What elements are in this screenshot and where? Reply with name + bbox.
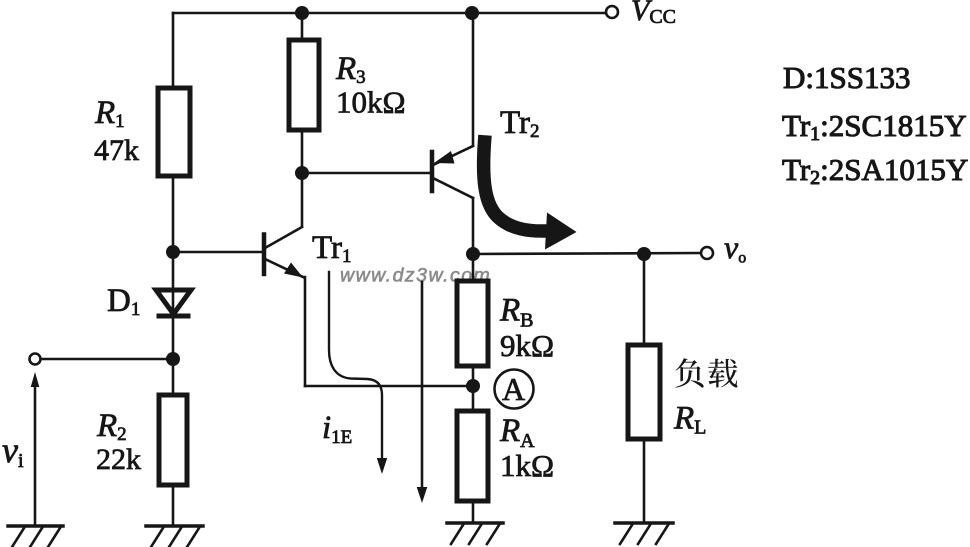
wire Tr2 emitter to Vcc [472,13,475,145]
node input/D1/R2 [166,352,180,366]
current arrow i1E [329,272,387,474]
wire RA bottom [472,501,475,523]
resistor R3 [289,40,319,130]
wire R2 top [172,359,175,395]
vi arrow [31,372,40,526]
resistor RA [457,411,488,501]
wire R3 bottom [301,130,304,173]
current arrow RA branch [417,282,428,503]
svg-text:RA: RA [499,413,535,452]
svg-text:A: A [502,371,525,407]
resistor RB [457,281,488,366]
transistor Q Tr1 [264,173,303,278]
svg-text:Tr2:2SA1015Y: Tr2:2SA1015Y [782,152,968,189]
wire Tr2 base [302,172,430,175]
node R3/Tr1 collector/Tr2 base [295,166,309,180]
svg-text:R1: R1 [94,95,125,132]
svg-text:D1: D1 [107,283,140,320]
wire Tr1 base [173,251,262,254]
label load (Chinese) [675,358,703,388]
svg-text:22k: 22k [96,443,141,476]
ground R2 [146,526,203,547]
node top R3 [295,6,309,20]
input terminal vi [30,354,41,365]
wire Tr2 collector down [472,198,475,254]
wire RB top [472,254,475,281]
svg-text:D:1SS133: D:1SS133 [783,60,910,95]
wire RL bottom [643,439,646,523]
svg-text:10kΩ: 10kΩ [336,85,406,120]
svg-text:R2: R2 [96,408,127,445]
svg-text:R3: R3 [335,51,366,88]
svg-text:47k: 47k [94,134,139,167]
wire diode branch [172,252,175,359]
node output/RL [637,247,651,261]
wire Tr1 emitter down [304,277,307,386]
svg-text:i1E: i1E [322,410,352,448]
wire R1 top [172,13,175,88]
wire RA top [472,386,475,411]
ground vi [8,526,63,547]
ground RA [447,523,503,544]
svg-text:VCC: VCC [631,0,676,28]
node A circle label [495,370,534,409]
svg-text:vo: vo [724,229,746,267]
svg-text:Tr2: Tr2 [500,105,540,142]
svg-text:Tr1: Tr1 [312,230,352,267]
svg-text:1kΩ: 1kΩ [500,448,554,483]
ground RL [615,523,673,544]
Vcc terminal [606,6,618,18]
thick current arrow Tr2 [484,142,577,250]
wire top rail [173,12,606,15]
svg-text:RB: RB [499,293,534,332]
resistor R1 [158,88,190,176]
svg-text:RL: RL [673,401,706,439]
wire output [473,253,701,254]
wire RL top [643,254,646,345]
svg-text:vi: vi [2,430,24,472]
svg-text:9kΩ: 9kΩ [500,328,554,363]
diode D1 [156,290,191,316]
wire R2 bottom [172,485,175,526]
resistor R2 [159,395,187,485]
wire input [41,358,173,361]
wire RB bottom [472,366,475,386]
resistor RL [628,345,660,439]
node output [466,247,480,261]
wire emitter to node A [305,385,473,388]
terminal vo [701,247,713,259]
node R1/D1/Tr1 base [166,245,180,259]
wire R1 bottom [172,176,175,252]
transistor Q Tr2 [432,146,473,198]
wire R3 top [301,13,304,40]
node Vcc/Tr2 emitter [465,6,479,20]
node A [466,379,480,393]
svg-text:Tr1:2SC1815Y: Tr1:2SC1815Y [782,108,967,145]
